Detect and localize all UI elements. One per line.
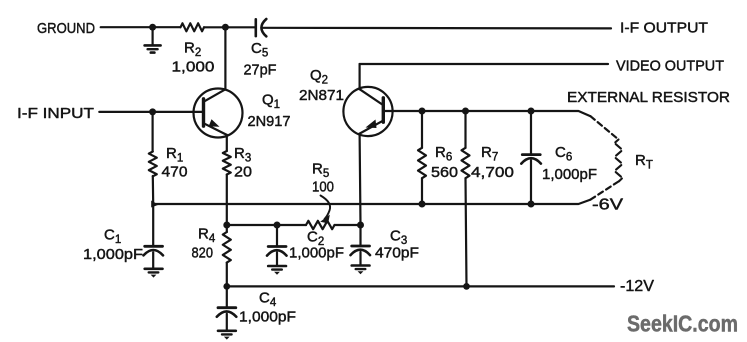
capacitor C4 — [217, 286, 237, 329]
transistor Q1 — [194, 89, 243, 138]
junction: ground tap on top rail — [149, 24, 156, 31]
svg-text:1,000: 1,000 — [172, 59, 215, 75]
resistor R3 — [223, 135, 231, 225]
junction: C2 tap — [274, 222, 281, 229]
svg-text:470pF: 470pF — [375, 246, 419, 262]
svg-text:C3: C3 — [390, 228, 407, 248]
leader arrow from 100 to R5 — [320, 196, 330, 224]
svg-text:R2: R2 — [184, 40, 201, 60]
wire: Q2 base rail — [383, 111, 590, 116]
svg-text:-6V: -6V — [592, 197, 623, 214]
junction: C3 / Q2 emitter tap — [357, 222, 364, 229]
resistor R7 — [462, 111, 470, 286]
capacitor C6 — [521, 111, 541, 204]
svg-text:VIDEO OUTPUT: VIDEO OUTPUT — [616, 58, 724, 75]
junction: Q1 collector tap on top rail — [222, 24, 229, 31]
capacitor C3 — [351, 225, 371, 265]
junction blob: R1 corner on -6V rail — [151, 201, 158, 208]
resistor R4 — [223, 225, 231, 286]
svg-text:I-F INPUT: I-F INPUT — [17, 105, 94, 122]
svg-text:560: 560 — [431, 165, 458, 181]
ground symbol (C1) — [145, 269, 163, 278]
wire: R2 to C5 — [204, 26, 255, 28]
junction: R7 on -12V rail — [463, 283, 470, 290]
svg-text:R1: R1 — [166, 145, 183, 165]
ground symbol (C3) — [352, 266, 370, 275]
wire: Q1 collector riser — [224, 27, 226, 89]
resistor RT (dashed, external) — [615, 140, 622, 182]
ground symbol (C4) — [218, 331, 236, 340]
resistor R5 — [306, 221, 335, 229]
svg-text:C1: C1 — [104, 227, 121, 247]
svg-text:2N871: 2N871 — [299, 88, 344, 104]
dashed lead: base rail to RT — [591, 116, 619, 139]
svg-text:I-F OUTPUT: I-F OUTPUT — [620, 19, 708, 36]
wire: video output line — [360, 63, 608, 65]
capacitor C1 — [144, 204, 164, 268]
svg-text:C4: C4 — [259, 290, 277, 310]
wire: C5 to I-F OUTPUT — [263, 27, 611, 30]
ground symbol (C2) — [268, 266, 286, 275]
junction: C6 on -6V rail — [528, 201, 535, 208]
svg-text:R4: R4 — [198, 226, 216, 246]
svg-text:2N917: 2N917 — [248, 114, 291, 130]
transistor Q2 — [343, 87, 392, 136]
junction: R7 on base rail — [462, 108, 469, 115]
wire: Q2 emitter drop — [359, 134, 362, 225]
resistor R6 — [418, 111, 426, 204]
svg-text:470: 470 — [162, 164, 188, 180]
svg-text:EXTERNAL RESISTOR: EXTERNAL RESISTOR — [567, 89, 730, 106]
svg-text:1,000pF: 1,000pF — [239, 310, 296, 326]
wire: Q2 collector riser — [359, 64, 361, 89]
svg-text:SeekIC.com: SeekIC.com — [627, 310, 738, 336]
wire: emitter bypass rail (right of R5) — [335, 224, 361, 226]
svg-text:820: 820 — [192, 246, 214, 262]
svg-text:27pF: 27pF — [244, 63, 277, 79]
junction: R4/C4 on -12V rail — [223, 283, 230, 290]
junction: R6 on base rail — [419, 108, 426, 115]
svg-text:1,000pF: 1,000pF — [289, 245, 344, 261]
svg-text:C5: C5 — [251, 40, 268, 60]
svg-text:Q2: Q2 — [310, 67, 328, 87]
svg-text:4,700: 4,700 — [471, 165, 514, 181]
svg-text:R6: R6 — [435, 144, 452, 164]
wire: emitter bypass rail (left of R5) — [227, 224, 306, 226]
wire: -6V rail — [153, 200, 590, 204]
svg-text:R3: R3 — [234, 145, 251, 165]
svg-text:GROUND: GROUND — [37, 20, 95, 37]
svg-text:1,000pF: 1,000pF — [542, 167, 597, 183]
ground symbol (top-left) — [145, 27, 161, 52]
wire: top rail, GROUND to R2 — [101, 26, 180, 28]
capacitor C5 — [256, 19, 266, 36]
svg-text:R5: R5 — [312, 161, 329, 181]
resistor R2 — [181, 23, 205, 31]
junction: C6 on base rail — [528, 108, 535, 115]
junction: R6 on -6V rail — [419, 201, 426, 208]
capacitor C2 — [267, 225, 287, 265]
resistor R1 — [149, 112, 157, 204]
svg-text:-12V: -12V — [620, 278, 654, 295]
dashed lead: RT to -6V rail — [591, 182, 619, 200]
svg-text:Q1: Q1 — [262, 92, 280, 112]
junction: R4 tap — [223, 222, 230, 229]
junction: input / R1 tap — [149, 108, 156, 115]
svg-text:R7: R7 — [481, 144, 498, 164]
wire: -12V rail — [227, 285, 614, 287]
svg-text:20: 20 — [234, 164, 252, 180]
svg-text:RT: RT — [635, 152, 653, 172]
svg-text:1,000pF: 1,000pF — [83, 247, 143, 263]
wire: input to Q1 base — [99, 111, 203, 113]
svg-text:C6: C6 — [555, 144, 572, 164]
svg-text:100: 100 — [312, 180, 334, 196]
